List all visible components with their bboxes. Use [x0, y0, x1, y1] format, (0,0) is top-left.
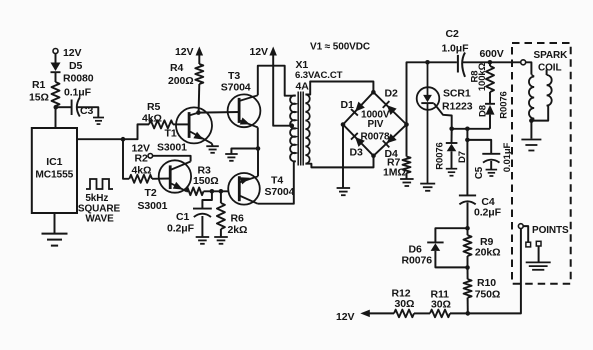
wire	[211, 143, 214, 146]
wire bridge left to ground	[342, 125, 344, 188]
wire	[467, 203, 469, 229]
svg-text:D3: D3	[350, 147, 363, 159]
node bridge top	[371, 90, 376, 95]
node center tap	[290, 123, 295, 128]
wire T4 emitter	[257, 149, 259, 177]
wire	[202, 191, 212, 208]
svg-text:R6: R6	[231, 213, 244, 225]
capacitor C3 0.1µF	[64, 87, 93, 118]
svg-text:600V: 600V	[480, 48, 504, 60]
diode D2	[383, 88, 398, 116]
svg-text:5kHz: 5kHz	[85, 193, 108, 204]
ground C5	[486, 170, 498, 176]
wire	[123, 139, 129, 179]
svg-text:S3001: S3001	[138, 200, 168, 212]
wire	[450, 312, 468, 314]
wire	[414, 312, 430, 314]
svg-text:12V: 12V	[63, 47, 81, 59]
capacitor C1 0.2µF	[167, 209, 212, 235]
svg-text:0.1μF: 0.1μF	[64, 87, 92, 99]
svg-text:R5: R5	[147, 101, 160, 113]
resistor R1 15Ω	[29, 79, 60, 106]
svg-text:D7: D7	[457, 151, 468, 163]
diode D4	[383, 133, 398, 159]
node R9/R10	[465, 265, 470, 270]
transistor T2 S3001	[138, 160, 192, 212]
diode D7	[434, 129, 468, 170]
wire	[463, 61, 521, 63]
resistor R6 2kΩ	[217, 203, 247, 236]
wire	[55, 73, 57, 82]
node R1/C3	[54, 105, 59, 110]
diode D6	[402, 228, 468, 267]
svg-text:4kΩ: 4kΩ	[132, 164, 152, 176]
wire	[467, 140, 491, 154]
node bridge bottom	[371, 154, 376, 159]
wire	[370, 312, 395, 314]
node R8 top	[488, 60, 493, 65]
resistor R9 20kΩ	[464, 228, 501, 267]
12V supply bottom	[336, 310, 370, 323]
wire	[173, 123, 189, 125]
svg-text:SCR1: SCR1	[443, 88, 471, 100]
wire	[187, 190, 189, 192]
ground D7	[446, 169, 457, 176]
ground points	[526, 262, 551, 269]
wire T3 collector to primary top	[258, 66, 296, 96]
dashed distributor box	[512, 43, 571, 284]
wire	[54, 213, 56, 233]
capacitor C4 0.2µF	[459, 195, 502, 218]
svg-text:T2: T2	[145, 187, 157, 199]
svg-text:12V: 12V	[175, 46, 193, 58]
capacitor C5 0.01µF	[474, 142, 513, 179]
wire IC1 output	[77, 138, 123, 140]
svg-text:6.3VAC.CT: 6.3VAC.CT	[295, 70, 343, 81]
wire	[406, 125, 408, 157]
transistor T3 S7004	[221, 70, 261, 128]
transformer X1 secondary	[305, 95, 309, 164]
svg-text:150Ω: 150Ω	[193, 175, 219, 187]
svg-text:MC1555: MC1555	[35, 170, 73, 181]
wire	[220, 191, 222, 203]
ground R6	[214, 237, 228, 244]
node gate	[449, 127, 454, 132]
wire	[466, 140, 468, 195]
bridge labels	[361, 110, 391, 143]
wire HV rail	[407, 62, 457, 124]
svg-text:WAVE: WAVE	[85, 213, 114, 224]
diode D8	[477, 91, 509, 129]
svg-text:S7004: S7004	[265, 186, 295, 198]
transformer X1 core	[298, 92, 303, 166]
wire	[152, 178, 170, 180]
wire	[220, 229, 222, 237]
transistor T4 S7004	[228, 173, 294, 205]
svg-text:S3001: S3001	[157, 142, 187, 154]
svg-text:R2: R2	[135, 152, 148, 164]
node gate2	[465, 127, 470, 132]
resistor R12 30Ω	[392, 288, 415, 318]
wire	[123, 124, 149, 139]
diode D5	[51, 60, 94, 85]
svg-text:0.2μF: 0.2μF	[167, 223, 195, 235]
transistor T1 S3001	[157, 107, 212, 153]
label V1	[310, 42, 370, 53]
svg-text:R0076: R0076	[434, 142, 445, 170]
svg-text:12V: 12V	[250, 46, 268, 58]
wire secondary top to bridge	[306, 82, 374, 95]
svg-text:100kΩ: 100kΩ	[477, 62, 488, 91]
svg-text:2kΩ: 2kΩ	[228, 224, 248, 236]
wire secondary bottom to bridge	[306, 156, 374, 168]
ground T1 emitter	[206, 146, 219, 153]
svg-text:COIL: COIL	[538, 63, 562, 74]
svg-text:1MΩ: 1MΩ	[383, 167, 406, 179]
points terminal	[518, 224, 523, 229]
svg-text:R0076: R0076	[498, 91, 509, 119]
resistor R10 750Ω	[464, 268, 501, 314]
svg-text:4A: 4A	[296, 81, 310, 93]
svg-text:R1: R1	[32, 79, 45, 91]
svg-text:R0080: R0080	[63, 73, 94, 85]
breaker points	[523, 225, 569, 262]
ground R7	[400, 179, 414, 186]
svg-text:C2: C2	[446, 28, 459, 40]
resistor R7 1MΩ	[383, 157, 411, 179]
ground C1	[196, 237, 210, 244]
node SCR anode	[425, 60, 430, 65]
thyristor SCR1 R1223	[417, 62, 473, 183]
svg-text:T1: T1	[165, 128, 177, 140]
svg-text:R0076: R0076	[402, 255, 433, 267]
node bridge right	[404, 122, 409, 127]
resistor R4 200Ω	[168, 62, 203, 87]
capacitor C2 1.0µF	[442, 28, 504, 77]
wire	[466, 129, 468, 140]
svg-text:PIV: PIV	[368, 119, 384, 130]
node bridge left	[341, 122, 346, 127]
wire	[468, 229, 521, 314]
wire T3 emitter	[257, 127, 259, 148]
svg-text:20kΩ: 20kΩ	[475, 247, 501, 259]
ground IC1	[42, 234, 68, 246]
wire	[56, 106, 71, 108]
diode D1	[341, 99, 366, 116]
svg-text:R10: R10	[477, 277, 496, 289]
ground SCR cathode	[420, 184, 435, 191]
svg-text:V1 ≈ 500VDC: V1 ≈ 500VDC	[310, 42, 370, 53]
spark coil	[526, 50, 568, 121]
12V terminal at T2	[132, 142, 153, 176]
wire	[231, 149, 258, 154]
node R6/T4	[219, 189, 224, 194]
labels X1	[295, 59, 343, 93]
spark coil terminal	[521, 60, 526, 65]
svg-text:POINTS: POINTS	[532, 225, 569, 236]
wire	[204, 190, 229, 192]
svg-text:30Ω: 30Ω	[395, 298, 415, 310]
wire T1 to T3 base	[198, 111, 239, 114]
diode D3	[350, 133, 366, 159]
node A	[121, 137, 126, 142]
wire SCR gate	[434, 103, 452, 129]
svg-text:C5: C5	[474, 166, 485, 179]
svg-text:30Ω: 30Ω	[431, 299, 451, 311]
svg-text:12V: 12V	[336, 311, 354, 323]
svg-text:D1: D1	[341, 99, 354, 111]
svg-text:S7004: S7004	[221, 82, 251, 94]
wire	[55, 54, 57, 63]
svg-text:D8: D8	[477, 105, 488, 117]
node emitters	[256, 146, 261, 151]
svg-text:200Ω: 200Ω	[168, 75, 194, 87]
svg-text:R0078: R0078	[361, 132, 391, 143]
svg-text:15Ω: 15Ω	[29, 92, 49, 104]
node C5 branch	[465, 138, 470, 143]
resistor R8 100kΩ	[469, 62, 494, 103]
svg-text:0.01μF: 0.01μF	[502, 142, 513, 172]
12V supply at R4	[175, 46, 203, 64]
12V supply at center tap	[250, 46, 277, 58]
svg-text:1.0μF: 1.0μF	[442, 43, 470, 55]
svg-text:IC1: IC1	[46, 156, 62, 168]
svg-text:D2: D2	[385, 88, 398, 100]
wire	[55, 106, 57, 128]
wire gate node	[452, 128, 490, 130]
wire	[201, 216, 203, 237]
node T1 collector	[196, 110, 201, 115]
ground C3	[93, 118, 104, 125]
node C4/R9/D6	[465, 226, 470, 231]
wire	[406, 173, 408, 179]
svg-text:R1223: R1223	[442, 101, 473, 113]
svg-text:4kΩ: 4kΩ	[142, 113, 162, 125]
square wave symbol	[78, 179, 121, 224]
svg-text:C1: C1	[176, 211, 189, 223]
resistor R11 30Ω	[430, 289, 451, 318]
svg-text:SPARK: SPARK	[534, 50, 569, 61]
svg-text:750Ω: 750Ω	[475, 289, 501, 301]
resistor R2 4kΩ	[129, 175, 152, 183]
wire	[530, 121, 532, 139]
svg-text:R4: R4	[170, 62, 183, 74]
resistor R3 150Ω	[186, 165, 219, 196]
svg-text:T3: T3	[228, 70, 240, 82]
svg-text:0.2μF: 0.2μF	[474, 207, 502, 219]
wire T4 collector to primary bottom	[258, 161, 296, 203]
ground bridge	[337, 188, 351, 195]
svg-text:T4: T4	[271, 174, 283, 186]
ground T3/T4 emitters	[225, 154, 238, 161]
node R3/C1	[210, 189, 215, 194]
svg-text:D5: D5	[69, 60, 82, 72]
wire T2 collector to 12V	[153, 156, 191, 162]
transformer X1 primary	[290, 95, 296, 161]
12V supply terminal (top-left)	[53, 47, 81, 59]
wire center tap	[273, 55, 293, 126]
bridge edges	[343, 92, 407, 156]
op-amp IC1 MC1555 box	[32, 128, 77, 213]
wire	[77, 107, 98, 117]
ground spark coil	[521, 140, 541, 151]
node spark coil common	[529, 118, 534, 123]
node bottom rail	[466, 311, 471, 316]
resistor R5 4kΩ	[142, 101, 173, 128]
wire	[198, 84, 201, 113]
